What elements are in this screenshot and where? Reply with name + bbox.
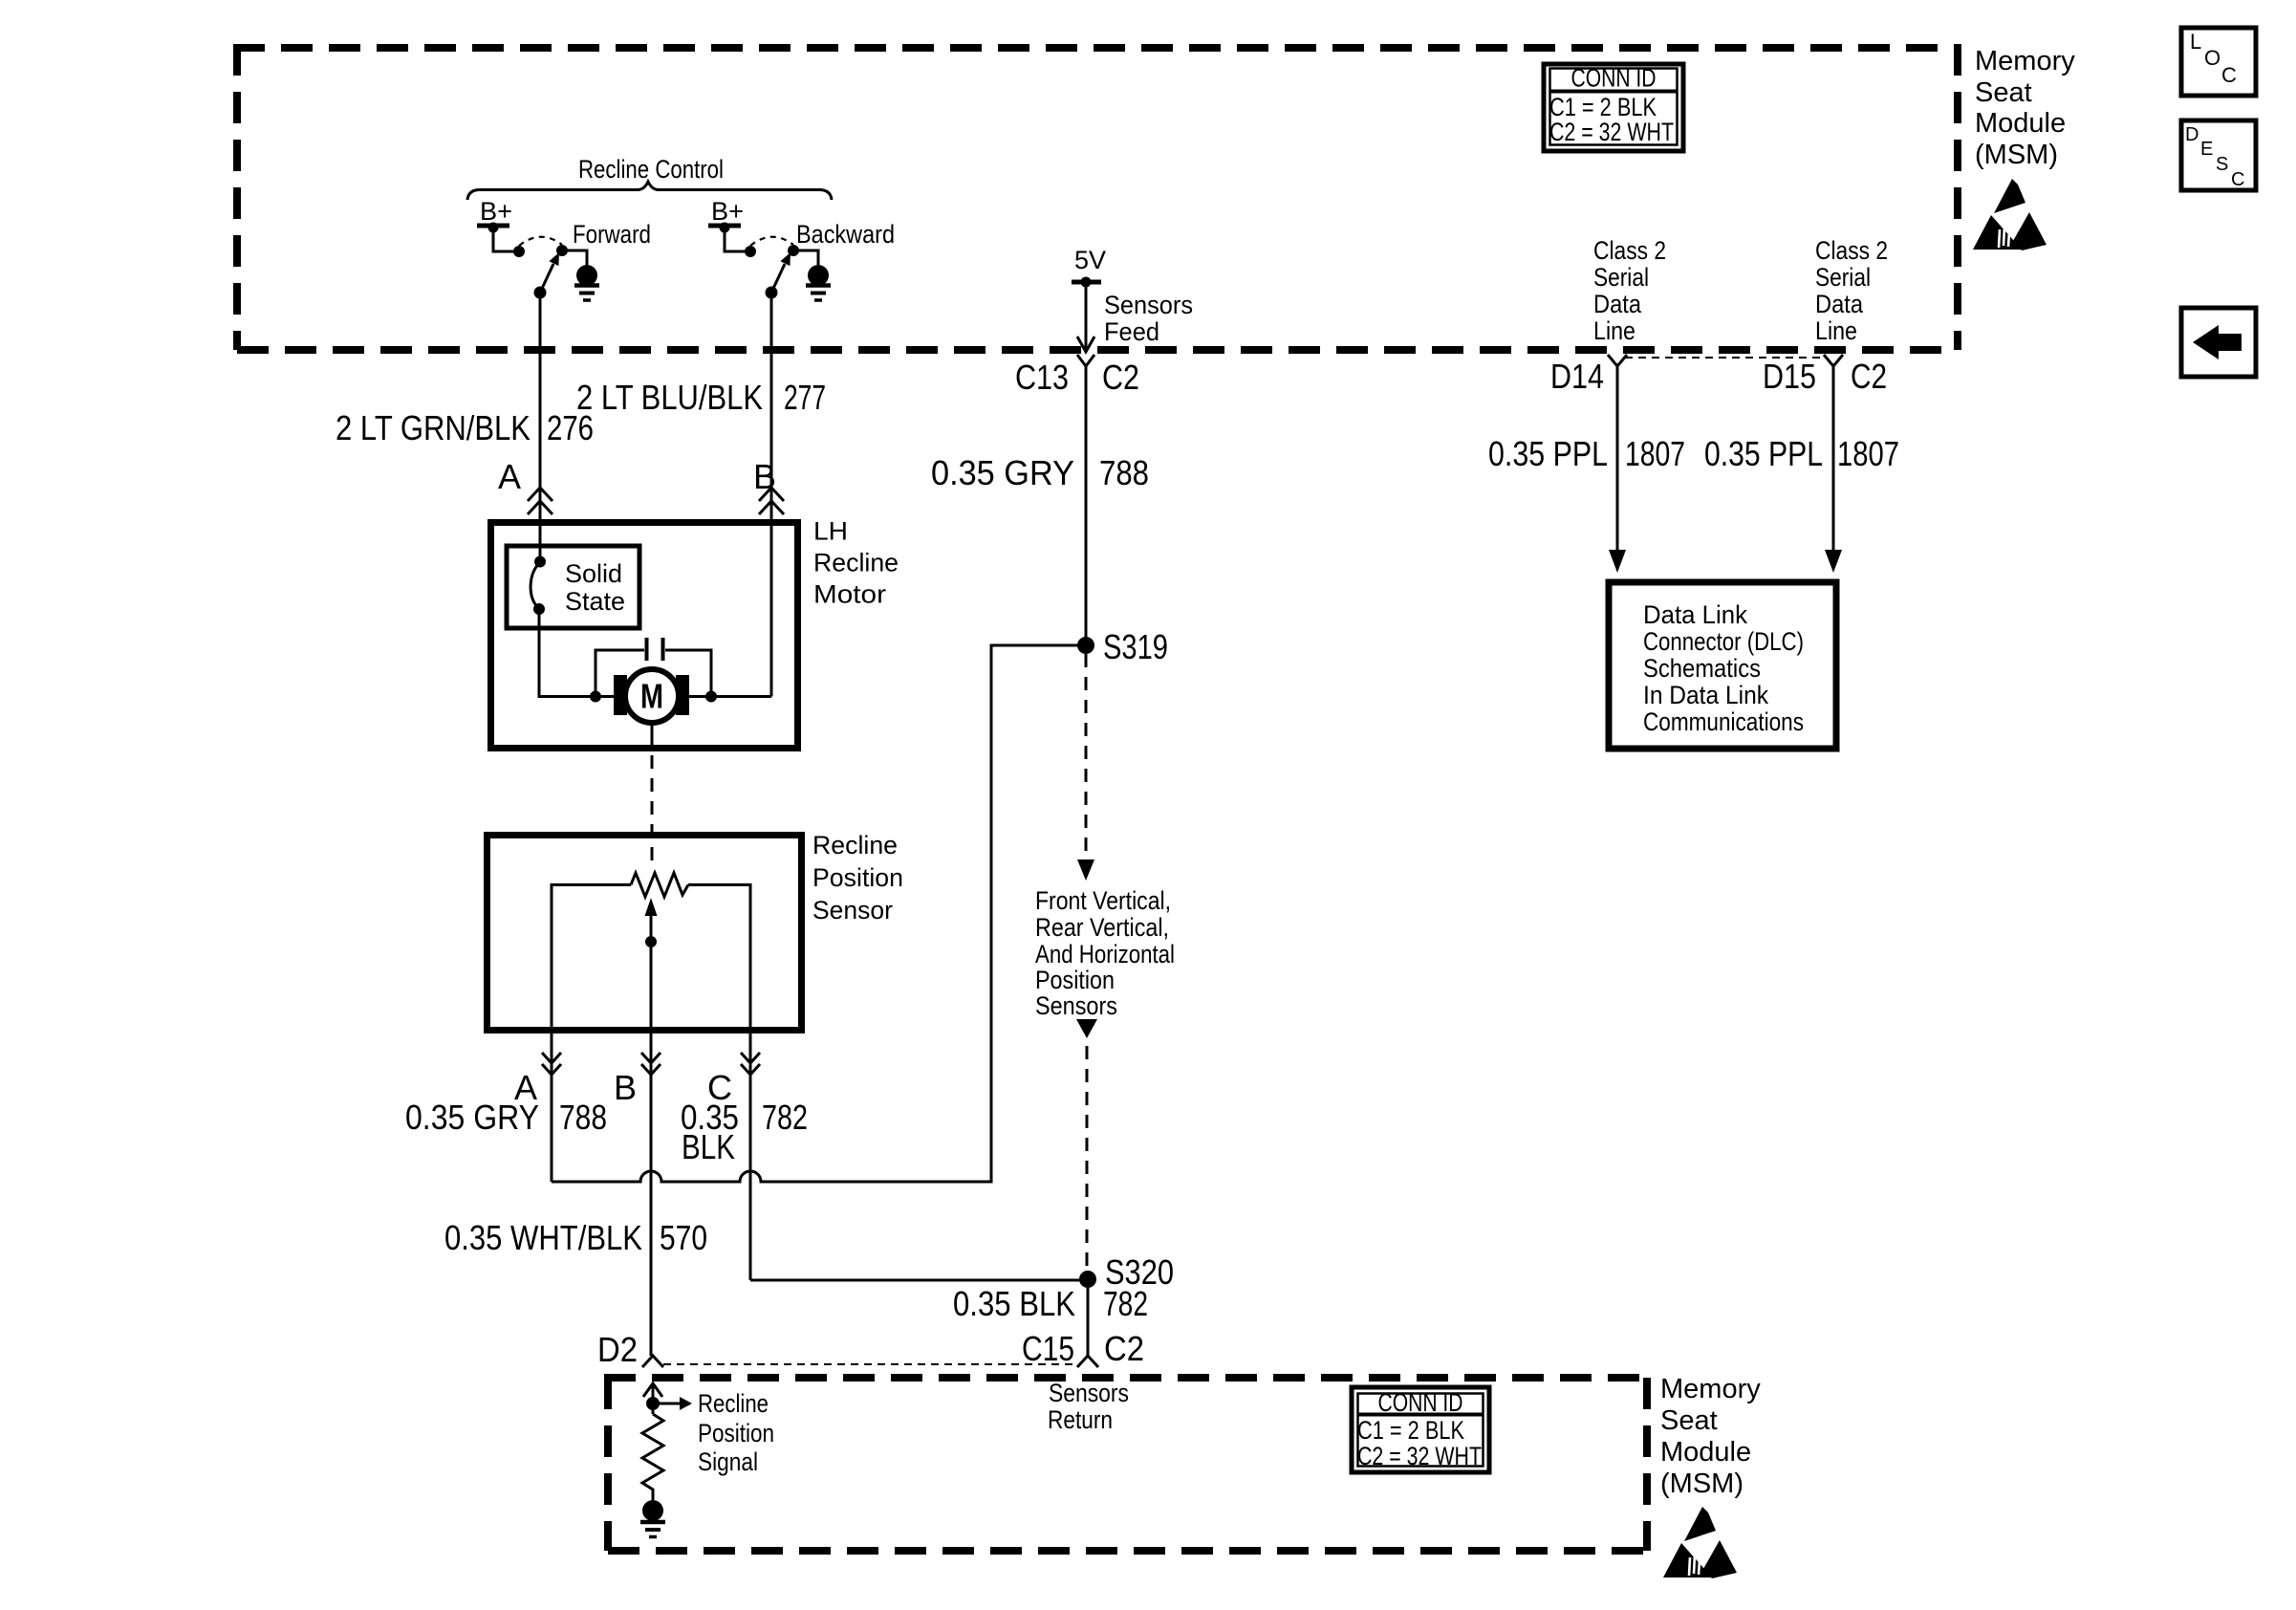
svg-text:Signal: Signal [698,1447,758,1476]
svg-text:In Data Link: In Data Link [1643,681,1768,709]
wire A: switch to motor (2 LT GRN/BLK 276) [539,293,542,559]
svg-text:B: B [753,457,776,496]
svg-text:Memory: Memory [1660,1374,1761,1404]
CONN ID table top [1544,64,1683,152]
svg-text:Position: Position [1035,966,1115,994]
wire 1807 D14 to DLC [1616,366,1619,551]
switch: Recline Control Forward (mirror of Backward switch) [477,223,599,301]
switch: Recline Control Backward [708,223,831,301]
svg-text:D: D [2185,124,2199,145]
svg-text:0.35 BLK: 0.35 BLK [953,1284,1075,1323]
svg-text:0.35 GRY: 0.35 GRY [405,1098,539,1137]
svg-text:Recline: Recline [698,1389,769,1418]
svg-text:C1 = 2 BLK: C1 = 2 BLK [1357,1416,1464,1445]
svg-text:Serial: Serial [1593,263,1649,292]
svg-text:(MSM): (MSM) [1660,1469,1744,1499]
svg-text:Communications: Communications [1643,707,1804,736]
svg-text:C: C [2221,63,2237,87]
svg-text:Class 2: Class 2 [1815,236,1888,265]
svg-text:L: L [2190,30,2201,54]
label: Front Vertical Rear Vertical And Horizontal Position Sensors [1035,886,1175,1020]
label: Recline Position Sensor [812,831,903,925]
motor M with brushes [614,669,689,732]
svg-text:CONN ID: CONN ID [1378,1388,1463,1417]
svg-text:0.35 PPL: 0.35 PPL [1488,434,1608,473]
junction dot right of motor [705,691,717,703]
wire 1807 D15 to DLC [1832,366,1835,551]
svg-text:D2: D2 [597,1330,638,1369]
capacitor across motor [596,638,711,697]
svg-text:Module: Module [1975,108,2066,139]
svg-text:Feed: Feed [1104,317,1159,346]
svg-text:2 LT BLU/BLK: 2 LT BLU/BLK [576,378,763,417]
svg-text:C2: C2 [1851,357,1887,396]
svg-text:Seat: Seat [1660,1405,1718,1436]
svg-text:BLK: BLK [682,1127,735,1166]
LH Recline Motor box [491,523,798,749]
sensor inner wire C [688,885,750,1281]
svg-text:C2 = 32 WHT: C2 = 32 WHT [1357,1442,1482,1470]
svg-text:Position: Position [812,863,903,892]
Data Link Connector box [1609,582,1836,749]
svg-text:0.35 PPL: 0.35 PPL [1704,434,1823,473]
wire 788: C13 to S319 [1085,366,1088,645]
svg-text:570: 570 [660,1218,707,1257]
svg-text:Sensors: Sensors [1035,991,1117,1020]
svg-text:D14: D14 [1550,357,1604,396]
junction dot left of motor [590,691,601,703]
wire: motor right brush to wire B [689,695,771,698]
recline position signal branch inside MSM [643,1383,692,1414]
svg-text:0.35 GRY: 0.35 GRY [931,453,1074,492]
Recline Position Sensor box [487,836,802,1031]
svg-text:S319: S319 [1103,627,1168,666]
wire B: switch to motor (2 LT BLU/BLK 277) [770,293,773,697]
svg-text:E: E [2200,139,2213,160]
label: Memory Seat Module (MSM) bottom [1660,1374,1761,1499]
dashed wire S319 to other position sensors [1085,654,1088,859]
wiper arrow [645,898,658,1030]
svg-text:Recline Control: Recline Control [578,155,724,184]
thin dashed connector line D14 to D15 [1625,357,1826,359]
svg-text:Sensors: Sensors [1104,291,1193,319]
ground symbol MSM [640,1500,665,1537]
svg-text:A: A [498,457,521,496]
svg-text:C2: C2 [1104,1329,1144,1368]
svg-text:Module: Module [1660,1437,1751,1468]
bus wire 788: sensor A to S319 (with hops over B and C) [552,645,1086,1182]
sensor inner wire A [552,885,631,1183]
svg-text:Position: Position [698,1419,774,1447]
connector chevrons wire A [528,488,552,514]
svg-text:C15: C15 [1022,1329,1074,1368]
wire S320 to C15 [1087,1288,1090,1356]
svg-text:Motor: Motor [813,580,886,609]
class 2 serial data labels [1593,236,1666,345]
Memory Seat Module (MSM) top dashed box [233,44,1958,350]
svg-text:C2: C2 [1102,358,1139,397]
svg-text:M: M [640,677,663,716]
svg-text:277: 277 [784,378,826,417]
svg-text:0.35 WHT/BLK: 0.35 WHT/BLK [444,1218,642,1257]
resistor to ground inside MSM [642,1414,663,1500]
connector D14 [1608,355,1627,366]
dashed wire to S320 [1086,1046,1089,1272]
svg-text:Seat: Seat [1975,77,2032,108]
svg-text:O: O [2204,46,2220,70]
wire 782: sensor C to S320 [750,1279,1080,1282]
svg-text:Schematics: Schematics [1643,654,1761,683]
svg-text:Forward: Forward [573,220,651,249]
svg-text:S: S [2216,154,2228,175]
ESD sensitive device symbol bottom [1663,1507,1737,1578]
svg-text:2 LT GRN/BLK: 2 LT GRN/BLK [336,408,531,447]
svg-text:788: 788 [559,1098,607,1137]
splice S320 [1079,1271,1096,1288]
svg-text:C13: C13 [1015,358,1069,397]
mechanical link motor to position sensor (dashed) [651,732,654,865]
connector chevrons wire B [759,488,784,514]
connector D2 [642,1356,663,1367]
svg-text:B+: B+ [480,197,512,226]
connector chevrons sensor A B C [542,1053,561,1075]
svg-text:B+: B+ [711,197,744,226]
svg-text:Rear Vertical,: Rear Vertical, [1035,913,1169,942]
svg-text:Recline: Recline [813,549,899,577]
svg-text:Sensor: Sensor [812,896,893,925]
svg-text:Line: Line [1815,316,1857,345]
svg-text:C: C [2231,169,2244,190]
Memory Seat Module (MSM) bottom dashed box [604,1378,1651,1551]
svg-text:Data Link: Data Link [1643,600,1747,629]
svg-text:(MSM): (MSM) [1975,140,2058,170]
label: LH Recline Motor [813,517,899,609]
label: Recline Position Signal [698,1389,774,1476]
svg-text:Solid: Solid [565,559,622,588]
wire: solid state to motor left brush [539,613,614,697]
DESC icon [2181,120,2256,190]
connector D15 C2 [1824,355,1843,366]
svg-text:Front Vertical,: Front Vertical, [1035,886,1171,915]
svg-text:782: 782 [762,1098,808,1137]
svg-text:D15: D15 [1763,357,1816,396]
solid state switch contacts and arc [534,556,546,568]
svg-text:5V: 5V [1074,246,1106,274]
svg-text:Class 2: Class 2 [1593,236,1666,265]
svg-text:LH: LH [813,517,848,546]
svg-text:Recline: Recline [812,831,898,859]
svg-text:C2 = 32 WHT: C2 = 32 WHT [1549,118,1674,146]
svg-text:Backward: Backward [796,220,895,249]
continuation triangle [1076,1019,1097,1038]
svg-text:1807: 1807 [1625,434,1685,473]
wire B sensor to D2 (0.35 WHT/BLK 570) [650,1030,653,1356]
LOC icon [2181,28,2256,96]
thin dashed connector line D2 to C15 [663,1363,1077,1365]
svg-text:782: 782 [1103,1284,1148,1323]
svg-text:B: B [614,1068,637,1107]
CONN ID table bottom [1352,1387,1489,1472]
connector C15 C2 [1077,1356,1098,1367]
svg-text:Data: Data [1815,290,1864,318]
svg-text:1807: 1807 [1837,434,1899,473]
svg-text:Serial: Serial [1815,263,1871,292]
splice S319 [1077,637,1094,654]
svg-text:788: 788 [1099,453,1149,492]
ESD sensitive device symbol top [1973,179,2047,250]
svg-text:CONN ID: CONN ID [1571,64,1657,93]
connector C13 C2 [1077,355,1094,366]
svg-text:Return: Return [1048,1405,1113,1434]
5V sensors feed [1072,246,1106,352]
Recline Control brace [467,182,832,200]
svg-text:Data: Data [1593,290,1642,318]
svg-text:Sensors: Sensors [1049,1379,1129,1407]
potentiometer resistor [631,873,688,897]
back arrow icon [2181,308,2256,377]
svg-text:State: State [565,587,625,616]
label: Memory Seat Module (MSM) top [1975,46,2075,170]
svg-text:Memory: Memory [1975,46,2075,76]
svg-text:Line: Line [1593,316,1635,345]
svg-text:And Horizontal: And Horizontal [1035,940,1175,968]
Solid State switch box [507,546,639,628]
svg-text:Connector (DLC): Connector (DLC) [1643,627,1804,656]
